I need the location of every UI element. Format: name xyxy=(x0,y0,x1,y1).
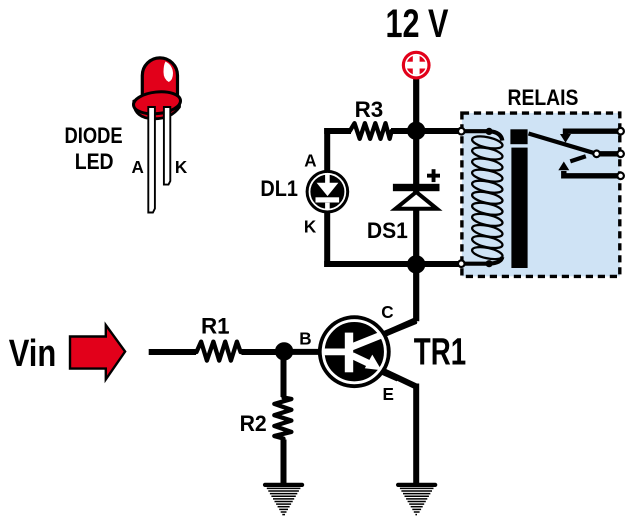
diode DS1 xyxy=(393,169,440,209)
resistor R1 xyxy=(197,342,241,361)
svg-text:RELAIS: RELAIS xyxy=(508,86,579,110)
svg-text:R3: R3 xyxy=(355,97,384,122)
transistor TR1 xyxy=(318,315,391,388)
relay moving contact arm xyxy=(529,134,597,154)
relay top fixed contact xyxy=(566,131,621,135)
wire base xyxy=(284,349,326,355)
svg-text:A: A xyxy=(304,150,317,171)
wire bottom horizontal to relay xyxy=(324,261,462,267)
Vin input arrow xyxy=(70,325,125,379)
relay arm tip stub xyxy=(570,156,586,161)
relay terminal right 1 xyxy=(617,128,624,135)
wire R2 to ground xyxy=(281,440,287,484)
LED illustration body xyxy=(132,58,181,119)
relay box K1 xyxy=(462,113,620,276)
svg-text:12 V: 12 V xyxy=(386,1,449,46)
svg-text:E: E xyxy=(383,383,395,404)
svg-text:B: B xyxy=(299,328,311,349)
wire top horizontal R3 row left xyxy=(324,128,351,134)
svg-text:R2: R2 xyxy=(240,411,267,437)
junction node at DS1 bottom rail xyxy=(407,255,425,273)
relay terminal right 3 xyxy=(617,173,624,180)
relay terminal left bottom xyxy=(458,260,465,267)
junction node base xyxy=(275,342,293,360)
svg-text:R1: R1 xyxy=(201,314,230,339)
relay terminal left top xyxy=(458,128,465,135)
wire emitter diagonal xyxy=(382,370,416,386)
wire Vin to R1 xyxy=(149,349,196,355)
resistor R2 xyxy=(274,398,291,439)
relay coil stub top xyxy=(462,131,502,140)
wire collector into ring xyxy=(384,321,416,334)
relay pivot terminal xyxy=(593,151,600,158)
LED illustration leg K xyxy=(164,107,170,185)
svg-text:LED: LED xyxy=(75,150,114,174)
svg-text:DS1: DS1 xyxy=(367,218,408,244)
ground GND1 (R2) xyxy=(265,485,302,515)
wire R1 to base junction xyxy=(241,349,284,355)
relay core anchor block xyxy=(510,129,527,144)
relay coil stub bottom xyxy=(462,257,502,264)
svg-text:K: K xyxy=(304,216,317,237)
resistor R3 xyxy=(350,123,392,139)
LED DL1 xyxy=(306,170,350,214)
supply +12V symbol xyxy=(402,51,431,80)
wire emitter vertical to ground xyxy=(413,384,419,484)
relay terminal right 2 xyxy=(617,151,624,158)
LED illustration leg A xyxy=(148,107,155,213)
svg-text:C: C xyxy=(381,301,394,322)
wire emitter out of ring xyxy=(382,372,398,379)
relay core bar xyxy=(511,148,527,268)
relay coil xyxy=(471,134,503,261)
relay common contact line xyxy=(597,151,621,156)
wire top horizontal R3 row right xyxy=(391,128,462,134)
wire junction to R2 xyxy=(281,352,287,397)
wire 12V rail vertical xyxy=(413,78,419,321)
wire collector diagonal xyxy=(384,320,416,334)
wire DL1 branch lower xyxy=(324,211,330,267)
svg-text:TR1: TR1 xyxy=(414,330,466,372)
wire DL1 branch upper xyxy=(324,128,330,172)
svg-text:DIODE: DIODE xyxy=(65,125,123,149)
svg-text:Vin: Vin xyxy=(9,333,57,374)
junction node at R3 / 12V rail xyxy=(407,122,425,140)
ground GND2 (emitter) xyxy=(398,485,435,515)
svg-text:A: A xyxy=(132,157,145,178)
svg-text:K: K xyxy=(175,157,188,178)
relay bottom fixed contact xyxy=(564,171,621,176)
svg-text:DL1: DL1 xyxy=(260,177,298,201)
